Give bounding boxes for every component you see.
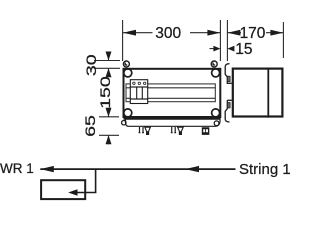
svg-text:30: 30 <box>84 54 99 76</box>
svg-text:300: 300 <box>155 25 181 42</box>
svg-text:65: 65 <box>83 115 98 137</box>
svg-text:170: 170 <box>240 25 266 42</box>
svg-text:15: 15 <box>235 41 252 58</box>
svg-text:150: 150 <box>98 76 113 109</box>
svg-text:String 1: String 1 <box>239 161 290 178</box>
svg-text:WR 1: WR 1 <box>0 161 34 176</box>
